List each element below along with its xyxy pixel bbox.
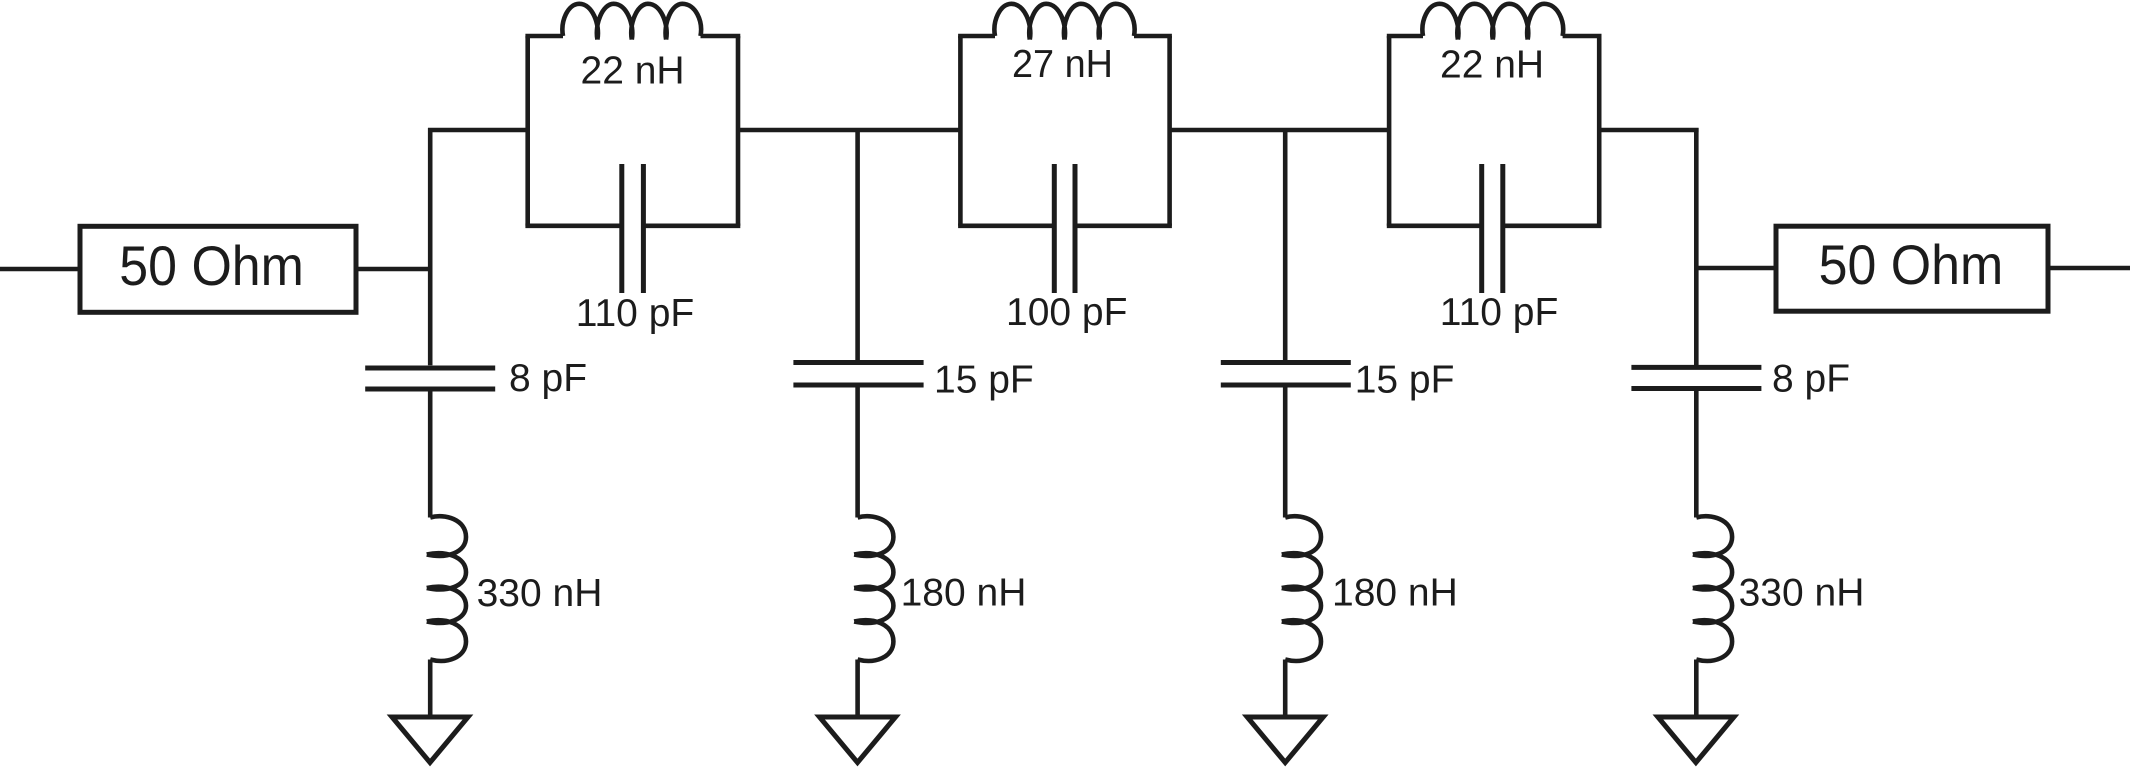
wire tank2 to tank3 (1170, 128, 1390, 133)
svg-text:8 pF: 8 pF (509, 357, 587, 400)
wire C7 to L7 (1694, 391, 1699, 518)
svg-text:110 pF: 110 pF (1440, 291, 1559, 334)
capacitor C6 110 pF plates (1479, 164, 1484, 293)
tank3 right edge (1597, 36, 1602, 226)
wire R2 to right edge (2048, 266, 2130, 271)
wire tank3 to node B (1599, 128, 1698, 133)
node B vertical riser (1694, 128, 1699, 365)
tank1 top edge right stub (701, 34, 741, 39)
tank2 top edge right stub (1134, 34, 1172, 39)
capacitor C7 8 pF plates (1631, 365, 1761, 370)
tank2 right edge (1167, 36, 1172, 226)
tank3 bottom edge right (1503, 224, 1602, 229)
wire node B to R2 (1696, 266, 1776, 271)
tank3 left edge (1387, 36, 1392, 226)
tank3 top edge left stub (1387, 34, 1423, 39)
tank2 top edge left stub (958, 34, 995, 39)
inductor L2 22 nH coil (562, 4, 701, 40)
capacitor C1 8 pF plates (365, 366, 495, 371)
wire tank1 to tank2 (738, 128, 960, 133)
svg-text:22 nH: 22 nH (581, 50, 685, 93)
svg-text:180 nH: 180 nH (1332, 572, 1458, 615)
resistor R2 50 Ohm box (1776, 226, 2048, 311)
wire C5 to L5 (1283, 387, 1288, 517)
tank1 right edge (736, 36, 741, 226)
tank1 left edge (525, 36, 530, 226)
shunt3 riser (1283, 130, 1288, 360)
wire node A to tank1 (428, 128, 528, 133)
svg-text:110 pF: 110 pF (576, 292, 695, 335)
svg-text:50 Ohm: 50 Ohm (1819, 233, 2004, 296)
inductor L6 22 nH coil (1422, 4, 1563, 40)
tank2 bottom edge left (958, 224, 1054, 229)
wire L5 to ground (1283, 660, 1288, 717)
svg-text:27 nH: 27 nH (1012, 43, 1113, 86)
capacitor C2 110 pF plates (619, 164, 624, 293)
tank3 bottom edge left (1387, 224, 1482, 229)
wire left input (0, 267, 80, 272)
tank2 left edge (958, 36, 963, 226)
wire C3 to L3 (855, 387, 860, 517)
svg-text:15 pF: 15 pF (1355, 359, 1455, 402)
svg-text:330 nH: 330 nH (1739, 571, 1865, 614)
tank2 bottom edge right (1075, 224, 1172, 229)
svg-text:100 pF: 100 pF (1006, 291, 1127, 334)
wire R1 to node A (356, 267, 432, 272)
svg-text:8 pF: 8 pF (1772, 358, 1850, 401)
inductor L4 27 nH coil (994, 4, 1134, 40)
capacitor C5 15 pF plates (1221, 360, 1351, 365)
capacitor C4 100 pF plates (1052, 164, 1057, 293)
tank3 top edge right stub (1563, 34, 1602, 39)
ground G2 (820, 717, 896, 763)
tank1 bottom edge left (525, 224, 621, 229)
node A vertical riser (428, 128, 433, 365)
svg-text:180 nH: 180 nH (901, 571, 1027, 614)
inductor L1 330 nH coil (427, 516, 466, 661)
svg-text:50 Ohm: 50 Ohm (119, 234, 304, 297)
wire L3 to ground (855, 660, 860, 717)
tank1 top edge left stub (525, 34, 563, 39)
tank1 bottom edge right (643, 224, 740, 229)
svg-text:15 pF: 15 pF (934, 359, 1034, 402)
wire L7 to ground (1694, 660, 1699, 717)
wire C1 to L1 (428, 392, 433, 518)
ground G4 (1658, 717, 1734, 763)
inductor L7 330 nH coil (1693, 516, 1732, 661)
inductor L5 180 nH coil (1282, 516, 1321, 661)
ground G1 (392, 717, 468, 763)
shunt2 riser (855, 130, 860, 360)
inductor L3 180 nH coil (854, 516, 893, 661)
wire L1 to ground (428, 660, 433, 717)
svg-text:22 nH: 22 nH (1440, 44, 1544, 87)
svg-text:330 nH: 330 nH (477, 572, 603, 615)
capacitor C3 15 pF plates (793, 360, 923, 365)
ground G3 (1247, 717, 1323, 763)
resistor R1 50 Ohm box (80, 226, 356, 312)
